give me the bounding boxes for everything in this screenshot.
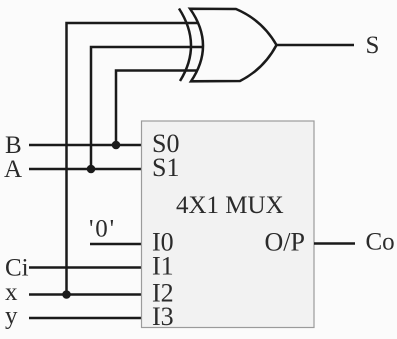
svg-text:4X1 MUX: 4X1 MUX xyxy=(176,192,284,219)
svg-text:I1: I1 xyxy=(152,252,174,281)
wire: B row to vertical riser (net B) xyxy=(29,144,116,147)
wire: Ci row to MUX I1 pin xyxy=(29,266,141,269)
svg-text:'0': '0' xyxy=(89,216,116,243)
svg-text:I3: I3 xyxy=(152,302,174,331)
xor gate U1 body xyxy=(190,9,277,82)
svg-text:Ci: Ci xyxy=(5,255,29,282)
svg-text:S: S xyxy=(366,32,380,59)
svg-text:A: A xyxy=(4,156,22,183)
wire: riser from A node up to XOR middle input xyxy=(91,47,205,169)
wire: XOR output to S xyxy=(277,44,355,47)
svg-text:B: B xyxy=(5,132,22,159)
mux U2 4X1 MUX block xyxy=(142,121,315,328)
wire: x row to MUX I2 pin xyxy=(29,293,141,296)
svg-text:Co: Co xyxy=(366,229,395,256)
wire: '0' constant stub to MUX I0 pin xyxy=(90,243,141,246)
wire: MUX O/P output to Co xyxy=(314,242,355,245)
svg-text:S1: S1 xyxy=(152,153,179,182)
svg-text:y: y xyxy=(5,303,18,330)
node B junction dot xyxy=(112,141,121,150)
node x junction dot xyxy=(62,290,71,299)
wire: A row to MUX S1 pin xyxy=(29,168,141,171)
wire: riser from B node up to XOR bottom input xyxy=(116,71,205,146)
wire: y row to MUX I3 pin xyxy=(29,317,141,320)
wire: riser from x node up to XOR top input xyxy=(67,23,206,295)
wire: B row to MUX S0 pin xyxy=(116,144,141,147)
xor gate U1 extra input arc xyxy=(179,9,191,82)
node A junction dot xyxy=(87,165,96,174)
svg-text:O/P: O/P xyxy=(265,227,305,256)
